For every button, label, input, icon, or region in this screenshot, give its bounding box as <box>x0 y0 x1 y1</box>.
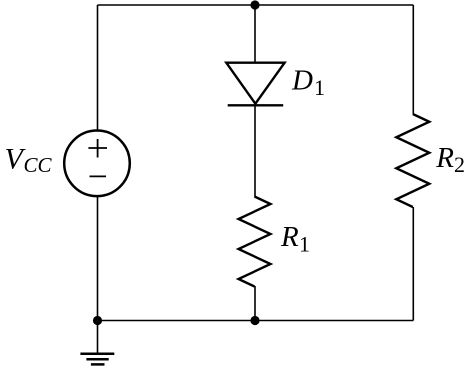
node bottom-middle junction <box>250 316 259 325</box>
wire right vertical lower <box>412 207 414 321</box>
svg-text:2: 2 <box>454 152 465 177</box>
wire middle between diode and R1 <box>254 105 256 197</box>
node top junction <box>250 0 259 9</box>
svg-text:1: 1 <box>299 232 310 257</box>
svg-text:CC: CC <box>24 153 53 177</box>
diode D1 <box>226 63 284 106</box>
node bottom-left junction <box>93 316 102 325</box>
svg-text:D: D <box>291 65 313 97</box>
svg-text:1: 1 <box>314 75 325 100</box>
resistor R2 <box>396 114 429 207</box>
label VCC <box>5 142 53 177</box>
wire bottom horizontal <box>98 320 414 322</box>
resistor R1 <box>239 197 271 287</box>
voltage source VCC <box>64 131 130 197</box>
wire middle vertical upper <box>254 5 256 63</box>
wire right vertical upper <box>412 5 414 114</box>
label D1 <box>291 65 325 100</box>
label R2 <box>435 142 465 177</box>
svg-text:R: R <box>280 221 299 253</box>
label R1 <box>280 221 310 257</box>
wire top horizontal <box>98 4 414 6</box>
svg-text:R: R <box>435 142 454 174</box>
wire middle vertical lower <box>254 286 256 321</box>
wire left vertical upper <box>97 5 99 131</box>
wire left vertical lower <box>97 196 99 321</box>
ground <box>80 321 114 365</box>
